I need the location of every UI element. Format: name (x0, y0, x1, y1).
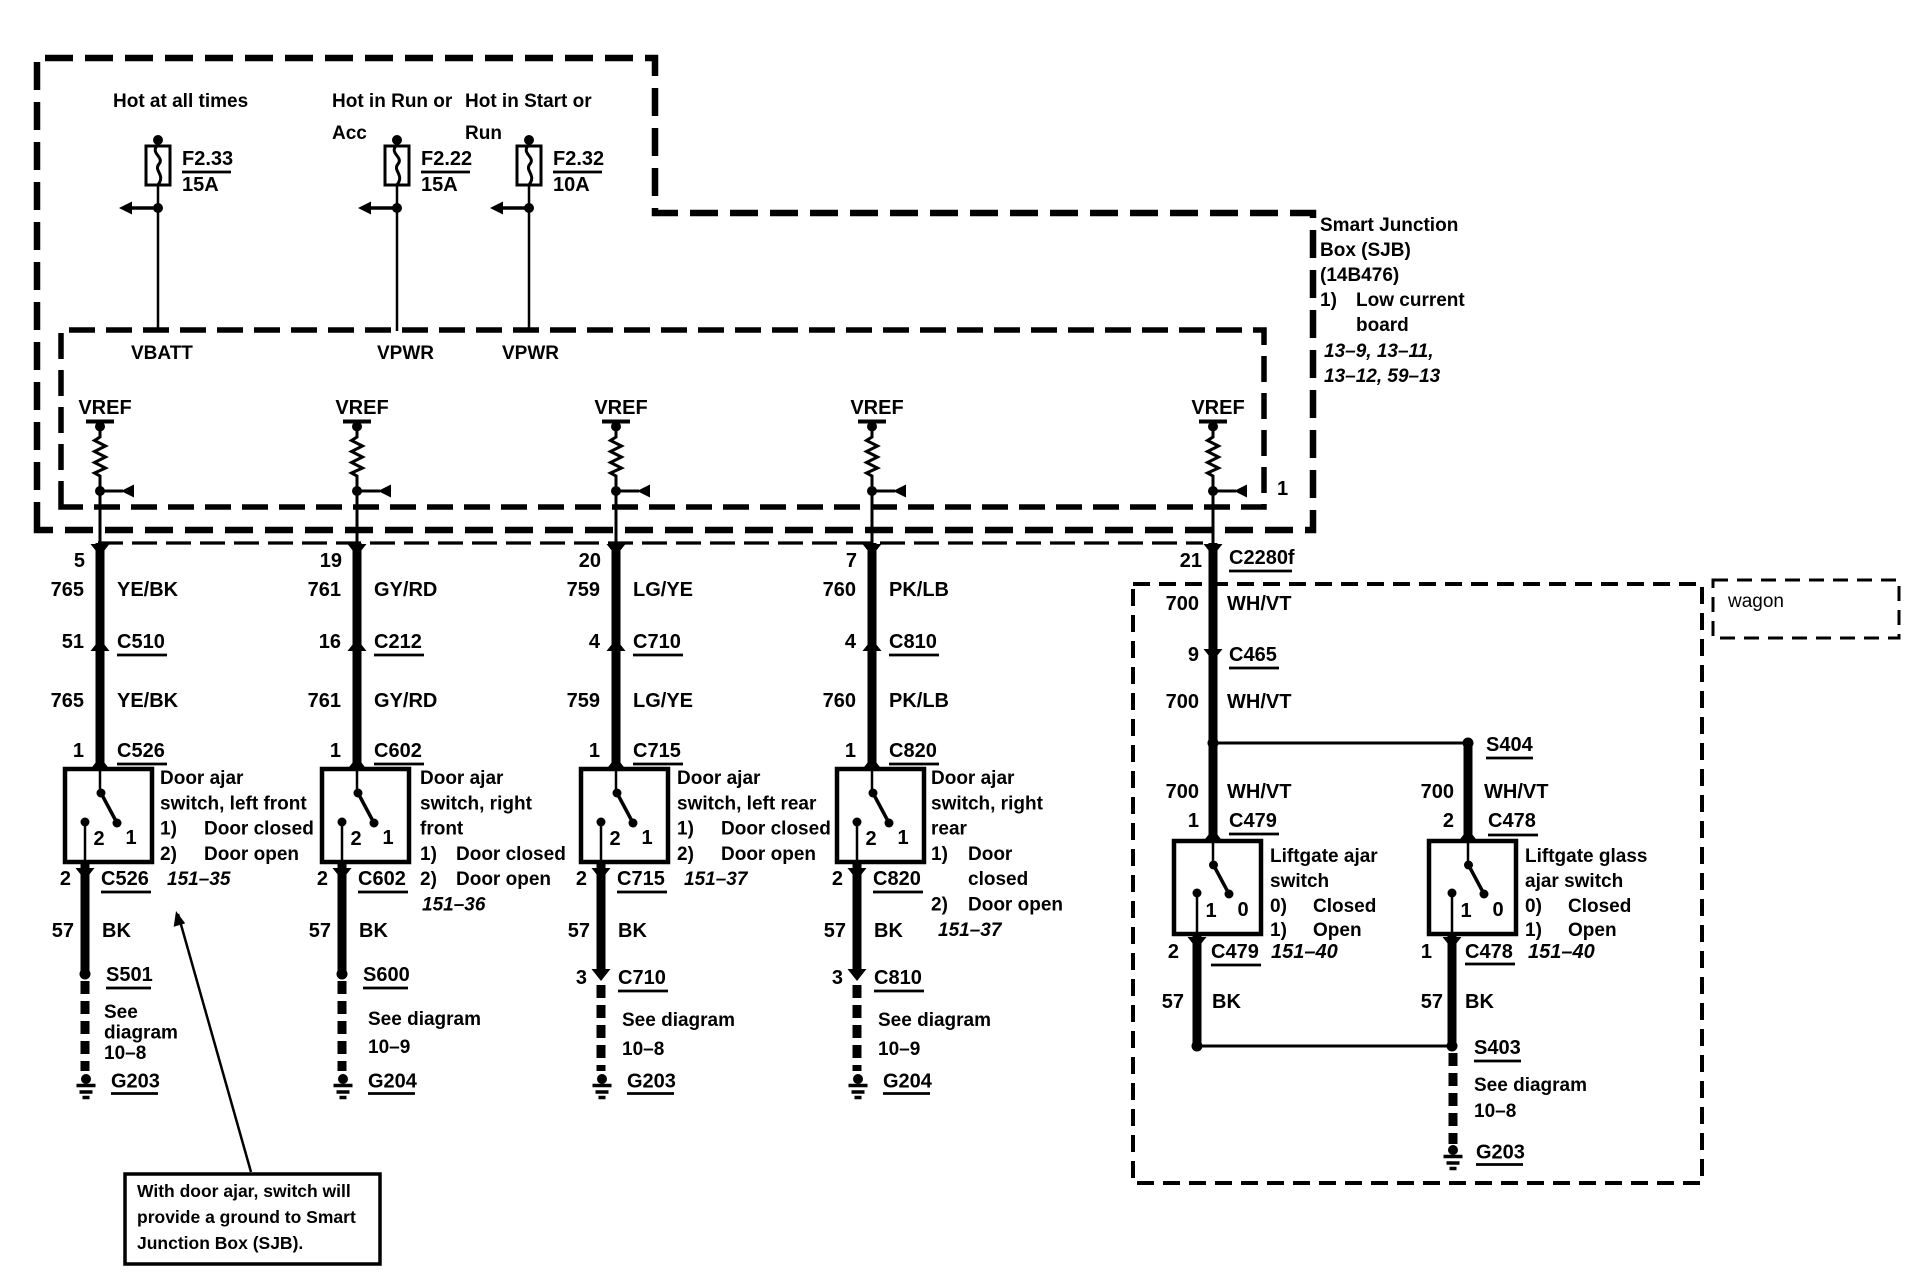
svg-text:5: 5 (74, 550, 85, 572)
svg-text:(14B476): (14B476) (1320, 265, 1399, 286)
svg-text:C710: C710 (633, 631, 681, 653)
svg-text:1: 1 (382, 827, 393, 849)
wire switch output C526 (81, 862, 90, 974)
connector C810 pin 3 (848, 969, 867, 981)
svg-text:10A: 10A (553, 174, 590, 196)
resistor VREF pull-up x=100 (95, 421, 106, 491)
svg-text:GY/RD: GY/RD (374, 579, 437, 601)
svg-text:765: 765 (51, 579, 84, 601)
svg-text:Door ajar: Door ajar (931, 768, 1015, 789)
resistor VREF pull-up x=1213 (1208, 421, 1219, 491)
svg-text:57: 57 (824, 920, 846, 942)
svg-text:Hot in Run or: Hot in Run or (332, 91, 453, 112)
junction dot fuse F2.32 (524, 203, 534, 213)
wire fuse F2.32 output (528, 185, 531, 331)
svg-text:Open: Open (1313, 920, 1362, 941)
svg-text:PK/LB: PK/LB (889, 690, 949, 712)
svg-text:diagram: diagram (104, 1023, 178, 1044)
svg-text:S501: S501 (106, 964, 153, 986)
svg-text:10–8: 10–8 (1474, 1101, 1516, 1122)
svg-text:Smart Junction: Smart Junction (1320, 215, 1458, 236)
wire switch output C602 (338, 862, 347, 974)
svg-text:2: 2 (1168, 941, 1179, 963)
svg-text:VREF: VREF (78, 397, 131, 419)
svg-text:See: See (104, 1002, 138, 1023)
svg-text:G203: G203 (627, 1071, 676, 1093)
svg-text:Door open: Door open (456, 869, 551, 890)
svg-text:rear: rear (931, 819, 968, 840)
svg-text:57: 57 (1162, 991, 1184, 1013)
svg-text:C479: C479 (1229, 810, 1277, 832)
svg-text:7: 7 (846, 550, 857, 572)
svg-text:13–9, 13–11,: 13–9, 13–11, (1324, 341, 1434, 362)
splice S600 (337, 969, 348, 980)
svg-text:BK: BK (102, 920, 131, 942)
svg-text:1): 1) (1525, 920, 1542, 941)
svg-text:2: 2 (609, 828, 620, 850)
svg-text:Open: Open (1568, 920, 1617, 941)
fuse F2.33 15A (153, 135, 163, 145)
svg-text:759: 759 (567, 690, 600, 712)
svg-text:2: 2 (865, 828, 876, 850)
svg-text:3: 3 (576, 967, 587, 989)
svg-text:VPWR: VPWR (502, 343, 559, 364)
svg-text:See diagram: See diagram (622, 1010, 735, 1031)
connector row dashed line C2280f (98, 541, 1203, 544)
svg-text:10–9: 10–9 (368, 1037, 410, 1058)
svg-text:C810: C810 (874, 967, 922, 989)
svg-text:57: 57 (1421, 991, 1443, 1013)
svg-text:Junction Box (SJB).: Junction Box (SJB). (137, 1233, 303, 1253)
svg-text:C602: C602 (374, 740, 422, 762)
svg-text:VPWR: VPWR (377, 343, 434, 364)
SJB inner dashed boundary (low current board) (61, 330, 1264, 507)
svg-text:700: 700 (1166, 781, 1199, 803)
door ajar switch, right front (322, 769, 409, 862)
wire (dashed) to ground (597, 985, 606, 1071)
svg-text:F2.32: F2.32 (553, 148, 604, 170)
svg-text:3: 3 (832, 967, 843, 989)
svg-text:Door closed: Door closed (721, 819, 831, 840)
resistor VREF pull-up x=872 (867, 421, 878, 491)
svg-text:C465: C465 (1229, 644, 1277, 666)
svg-text:switch, left front: switch, left front (160, 793, 307, 814)
svg-text:BK: BK (1212, 991, 1241, 1013)
svg-text:1: 1 (1460, 900, 1471, 922)
wire SJB pin 21 circuit 700 (1204, 544, 1223, 556)
svg-text:151–40: 151–40 (1271, 941, 1338, 963)
svg-text:See diagram: See diagram (368, 1009, 481, 1030)
svg-text:21: 21 (1180, 550, 1202, 572)
door ajar switch, right rear (837, 769, 924, 862)
svg-text:BK: BK (874, 920, 903, 942)
svg-text:1: 1 (845, 740, 856, 762)
wire SJB pin 7 circuit 760 (863, 544, 882, 556)
svg-text:1: 1 (1277, 478, 1288, 500)
svg-text:1: 1 (125, 827, 136, 849)
svg-text:2): 2) (160, 844, 177, 865)
svg-text:1): 1) (1270, 920, 1287, 941)
svg-text:F2.22: F2.22 (421, 148, 472, 170)
svg-text:1): 1) (420, 844, 437, 865)
svg-text:Run: Run (465, 123, 502, 144)
svg-text:759: 759 (567, 579, 600, 601)
wire fuse F2.22 output (396, 185, 399, 331)
svg-text:19: 19 (320, 550, 342, 572)
svg-text:9: 9 (1188, 644, 1199, 666)
svg-text:2): 2) (420, 869, 437, 890)
svg-text:C212: C212 (374, 631, 422, 653)
svg-text:13–12, 59–13: 13–12, 59–13 (1324, 366, 1441, 387)
svg-text:Hot at all times: Hot at all times (113, 91, 248, 112)
svg-text:700: 700 (1166, 691, 1199, 713)
svg-text:0: 0 (1492, 899, 1503, 921)
svg-text:PK/LB: PK/LB (889, 579, 949, 601)
ground G204 (853, 1074, 863, 1084)
svg-text:1: 1 (1205, 900, 1216, 922)
svg-text:WH/VT: WH/VT (1227, 593, 1291, 615)
svg-text:G203: G203 (1476, 1142, 1525, 1164)
svg-text:C710: C710 (618, 967, 666, 989)
svg-text:switch, right: switch, right (931, 793, 1044, 814)
svg-text:10–9: 10–9 (878, 1039, 920, 1060)
svg-text:20: 20 (579, 550, 601, 572)
svg-text:761: 761 (308, 579, 341, 601)
svg-text:15A: 15A (182, 174, 219, 196)
wire (dashed) to ground (81, 981, 90, 1071)
svg-text:VREF: VREF (1191, 397, 1244, 419)
junction and branch arrow x=357 (352, 486, 362, 496)
svg-text:VBATT: VBATT (131, 343, 193, 364)
svg-text:WH/VT: WH/VT (1227, 781, 1291, 803)
resistor VREF pull-up x=357 (352, 421, 363, 491)
connector C465 pin 9 (1204, 649, 1223, 661)
fuse F2.22 15A (392, 135, 402, 145)
junction and branch arrow x=1213 (1208, 486, 1218, 496)
svg-text:S404: S404 (1486, 734, 1534, 756)
svg-text:VREF: VREF (594, 397, 647, 419)
svg-text:760: 760 (823, 579, 856, 601)
branch arrow fuse F2.32 (503, 206, 529, 210)
wire (dashed) to ground (853, 985, 862, 1071)
svg-text:10–8: 10–8 (622, 1039, 664, 1060)
wire (dashed) S403 to ground (1449, 1053, 1458, 1144)
wire VREF to connector x=1213 (1212, 491, 1215, 543)
svg-text:With door ajar, switch will: With door ajar, switch will (137, 1181, 351, 1201)
svg-text:front: front (420, 819, 464, 840)
door ajar switch, left rear (581, 769, 668, 862)
svg-text:S403: S403 (1474, 1037, 1521, 1059)
note arrow to left front switch (178, 914, 251, 1172)
wagon label dashed box (1713, 580, 1899, 638)
svg-text:1): 1) (677, 819, 694, 840)
svg-text:1): 1) (931, 844, 948, 865)
svg-text:760: 760 (823, 690, 856, 712)
svg-text:2: 2 (1443, 810, 1454, 832)
wire SJB pin 5 circuit 765 (91, 544, 110, 556)
wire (dashed) to ground (338, 981, 347, 1071)
splice S403 junction (1192, 1041, 1203, 1052)
svg-text:1: 1 (330, 740, 341, 762)
svg-text:10–8: 10–8 (104, 1043, 146, 1064)
svg-text:4: 4 (845, 631, 857, 653)
wire liftgate ajar switch output (1193, 934, 1202, 1046)
svg-text:C715: C715 (633, 740, 681, 762)
wire VREF to connector x=616 (615, 491, 618, 543)
svg-text:2: 2 (350, 828, 361, 850)
svg-text:C820: C820 (889, 740, 937, 762)
svg-text:Door open: Door open (721, 844, 816, 865)
svg-text:1: 1 (1421, 941, 1432, 963)
liftgate ajar switch (1174, 841, 1261, 934)
svg-text:S600: S600 (363, 964, 410, 986)
svg-text:1): 1) (1320, 290, 1337, 311)
svg-text:closed: closed (968, 869, 1028, 890)
svg-text:Low current: Low current (1356, 290, 1465, 311)
svg-text:1: 1 (73, 740, 84, 762)
svg-text:4: 4 (589, 631, 601, 653)
ground G203 (81, 1074, 91, 1084)
svg-text:G204: G204 (883, 1071, 933, 1093)
svg-text:switch: switch (1270, 871, 1329, 892)
junction and branch arrow x=616 (611, 486, 621, 496)
wire VREF to connector x=100 (99, 491, 102, 543)
svg-text:700: 700 (1166, 593, 1199, 615)
wire liftgate glass switch output (1448, 934, 1457, 1046)
svg-text:15A: 15A (421, 174, 458, 196)
junction dot fuse F2.22 (392, 203, 402, 213)
svg-text:57: 57 (52, 920, 74, 942)
svg-text:57: 57 (309, 920, 331, 942)
svg-text:G204: G204 (368, 1071, 418, 1093)
fuse F2.32 10A (524, 135, 534, 145)
svg-text:C715: C715 (617, 868, 665, 890)
svg-text:2: 2 (60, 868, 71, 890)
svg-text:1: 1 (589, 740, 600, 762)
svg-text:0): 0) (1270, 896, 1287, 917)
svg-text:151–35: 151–35 (167, 869, 231, 890)
wire SJB pin 19 circuit 761 (348, 544, 367, 556)
svg-text:Liftgate ajar: Liftgate ajar (1270, 846, 1378, 867)
svg-text:1: 1 (1188, 810, 1199, 832)
svg-text:761: 761 (308, 690, 341, 712)
svg-text:C810: C810 (889, 631, 937, 653)
junction and branch arrow x=100 (95, 486, 105, 496)
door ajar switch, left front (65, 769, 152, 862)
svg-text:Acc: Acc (332, 123, 367, 144)
svg-text:2: 2 (832, 868, 843, 890)
svg-text:Door ajar: Door ajar (677, 768, 761, 789)
svg-text:YE/BK: YE/BK (117, 690, 179, 712)
svg-text:151–37: 151–37 (938, 920, 1003, 941)
svg-text:YE/BK: YE/BK (117, 579, 179, 601)
svg-text:BK: BK (618, 920, 647, 942)
svg-text:151–36: 151–36 (422, 895, 486, 916)
svg-text:0: 0 (1237, 899, 1248, 921)
svg-text:C526: C526 (117, 740, 165, 762)
junction and branch arrow x=872 (867, 486, 877, 496)
splice S501 (80, 969, 91, 980)
wire switch output C715 (597, 862, 606, 970)
wire VREF to connector x=872 (871, 491, 874, 543)
svg-text:700: 700 (1421, 781, 1454, 803)
liftgate glass ajar switch (1429, 841, 1516, 934)
svg-text:151–37: 151–37 (684, 869, 749, 890)
svg-text:BK: BK (359, 920, 388, 942)
svg-text:Closed: Closed (1568, 896, 1631, 917)
svg-text:1: 1 (641, 827, 652, 849)
svg-text:C2280f: C2280f (1229, 547, 1295, 569)
svg-text:provide a ground to Smart: provide a ground to Smart (137, 1207, 356, 1227)
svg-text:765: 765 (51, 690, 84, 712)
ground G203 (597, 1074, 607, 1084)
svg-text:C602: C602 (358, 868, 406, 890)
svg-text:GY/RD: GY/RD (374, 690, 437, 712)
connector C710 pin 3 (592, 969, 611, 981)
svg-text:16: 16 (319, 631, 341, 653)
ground G204 (338, 1074, 348, 1084)
svg-text:ajar switch: ajar switch (1525, 871, 1623, 892)
svg-text:BK: BK (1465, 991, 1494, 1013)
svg-text:51: 51 (62, 631, 84, 653)
svg-text:board: board (1356, 315, 1409, 336)
wire fuse F2.33 output (157, 185, 160, 331)
svg-text:151–40: 151–40 (1528, 941, 1595, 963)
svg-text:Hot in Start or: Hot in Start or (465, 91, 592, 112)
svg-text:switch, left rear: switch, left rear (677, 793, 817, 814)
svg-text:LG/YE: LG/YE (633, 690, 693, 712)
svg-text:2: 2 (576, 868, 587, 890)
svg-text:See diagram: See diagram (1474, 1075, 1587, 1096)
resistor VREF pull-up x=616 (611, 421, 622, 491)
wire VREF to connector x=357 (356, 491, 359, 543)
branch arrow fuse F2.22 (371, 206, 397, 210)
ground G203 (1448, 1145, 1458, 1155)
svg-text:WH/VT: WH/VT (1227, 691, 1291, 713)
svg-text:C478: C478 (1465, 941, 1513, 963)
svg-text:G203: G203 (111, 1071, 160, 1093)
wire S404 to liftgate glass switch (1464, 743, 1473, 841)
svg-text:Liftgate glass: Liftgate glass (1525, 846, 1647, 867)
wire switch output C820 (853, 862, 862, 970)
svg-text:Box (SJB): Box (SJB) (1320, 240, 1411, 261)
svg-text:2): 2) (677, 844, 694, 865)
svg-text:switch, right: switch, right (420, 793, 533, 814)
svg-text:C478: C478 (1488, 810, 1536, 832)
svg-text:VREF: VREF (335, 397, 388, 419)
svg-text:See diagram: See diagram (878, 1010, 991, 1031)
svg-text:Door ajar: Door ajar (420, 768, 504, 789)
svg-text:wagon: wagon (1727, 591, 1784, 612)
svg-text:WH/VT: WH/VT (1484, 781, 1548, 803)
svg-text:Door closed: Door closed (456, 844, 566, 865)
Smart Junction Box outer dashed boundary (37, 58, 1313, 530)
svg-text:Door closed: Door closed (204, 819, 314, 840)
wire SJB pin 20 circuit 759 (607, 544, 626, 556)
splice S404 junction (1208, 738, 1219, 749)
svg-text:1): 1) (160, 819, 177, 840)
svg-text:1: 1 (897, 827, 908, 849)
svg-text:2: 2 (93, 828, 104, 850)
svg-text:Closed: Closed (1313, 896, 1376, 917)
svg-text:C526: C526 (101, 868, 149, 890)
svg-text:Door: Door (968, 844, 1013, 865)
svg-text:0): 0) (1525, 896, 1542, 917)
svg-text:2): 2) (931, 895, 948, 916)
svg-text:C820: C820 (873, 868, 921, 890)
svg-text:Door ajar: Door ajar (160, 768, 244, 789)
svg-text:Door open: Door open (968, 895, 1063, 916)
svg-text:C479: C479 (1211, 941, 1259, 963)
junction dot fuse F2.33 (153, 203, 163, 213)
svg-text:Door open: Door open (204, 844, 299, 865)
svg-text:C510: C510 (117, 631, 165, 653)
note box: door ajar ground note (125, 1174, 380, 1264)
svg-text:VREF: VREF (850, 397, 903, 419)
branch arrow fuse F2.33 (132, 206, 158, 210)
svg-text:57: 57 (568, 920, 590, 942)
wagon circuit dashed enclosure (1133, 584, 1702, 1183)
svg-text:F2.33: F2.33 (182, 148, 233, 170)
svg-text:2: 2 (317, 868, 328, 890)
svg-text:LG/YE: LG/YE (633, 579, 693, 601)
